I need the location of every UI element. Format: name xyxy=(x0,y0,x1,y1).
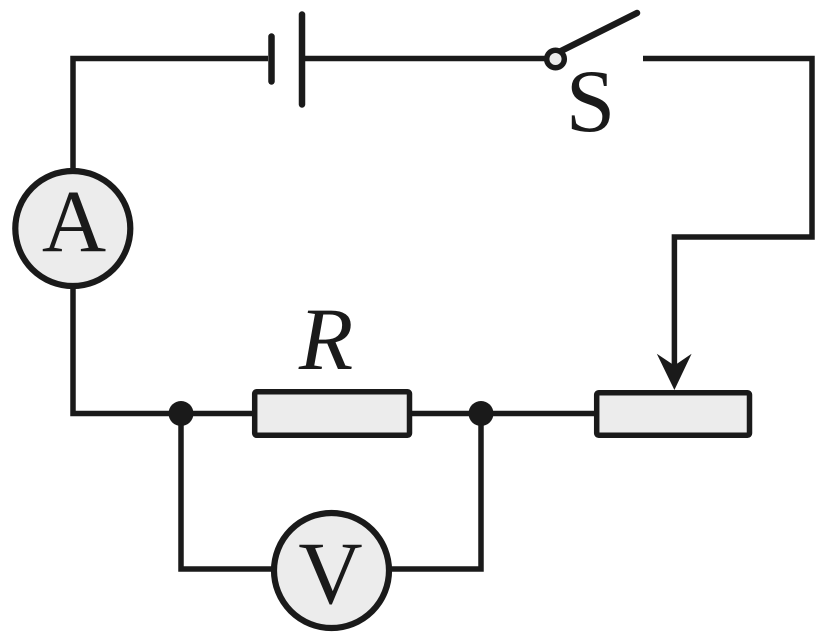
svg-text:V: V xyxy=(298,525,362,623)
svg-text:A: A xyxy=(42,173,106,271)
svg-text:R: R xyxy=(298,291,353,389)
svg-text:S: S xyxy=(566,53,616,151)
